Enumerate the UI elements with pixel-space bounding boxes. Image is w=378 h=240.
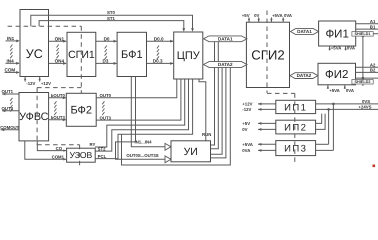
wire IN4 (6, 62, 20, 65)
stub +5VA (ФИ1) (328, 46, 330, 50)
label IN1 (7, 36, 15, 41)
label ON4 (55, 59, 65, 64)
wire -12V (258, 108, 276, 111)
label ST2 (98, 146, 106, 151)
label OUT0 (100, 93, 112, 98)
svg-text:0VS: 0VS (362, 99, 370, 104)
svg-text:-12V: -12V (26, 81, 35, 86)
wire RY (95, 79, 185, 147)
label D3 (103, 59, 109, 64)
svg-text:RUN: RUN (202, 132, 211, 137)
svg-text:PCL: PCL (98, 154, 107, 159)
wire +5V (ИП2) (258, 122, 276, 125)
label IN1...IN4 (135, 139, 153, 144)
svg-text:bOUT3: bOUT3 (51, 115, 66, 120)
svg-text:COM: COM (5, 68, 16, 73)
junction +24VS (327, 108, 330, 111)
label +5VA (ФИ2) (329, 88, 340, 93)
wire ON4 (49, 62, 67, 65)
stub +5V (СГИ2 top) (248, 17, 250, 22)
label ST1 (107, 16, 115, 21)
stub 0VA (ФИ1) (344, 46, 346, 50)
label +12V (41, 81, 51, 86)
svg-text:DATA1: DATA1 (218, 36, 233, 41)
label 0VA (ФИ2) (346, 88, 354, 93)
label A2 (370, 63, 376, 68)
wire OUT0S...OUT3S (116, 77, 172, 163)
wire ИП2 out a (316, 114, 322, 124)
svg-text:IN1...IN4: IN1...IN4 (135, 139, 153, 144)
block ИП3 (276, 141, 316, 156)
wire CO (37, 141, 66, 152)
svg-text:B1: B1 (370, 24, 376, 29)
svg-text:-12V: -12V (242, 107, 251, 112)
wire bOUT0 (49, 96, 67, 99)
svg-text:БФ1: БФ1 (121, 49, 143, 61)
label COM (5, 68, 16, 73)
red speck artifact (373, 165, 376, 168)
wire A1 (356, 23, 378, 25)
label +5V (СГИ2 top) (242, 13, 250, 18)
wire 0VA (ИП3) (258, 149, 276, 152)
label OUT4 (2, 106, 14, 111)
stub 0VA (СГИ2 top) (282, 17, 284, 22)
svg-text:DATA1: DATA1 (297, 29, 312, 34)
wire 0V (ИП2) (258, 128, 276, 131)
svg-text:IN1: IN1 (7, 36, 15, 41)
label 0V (ИП2) (242, 127, 247, 132)
svg-text:D0.3: D0.3 (153, 59, 163, 64)
svg-text:СГИ2: СГИ2 (251, 48, 284, 63)
dashed boundary v2 (через УФВС) (36, 88, 38, 145)
svg-text:D0.0: D0.0 (154, 36, 164, 41)
wire +5VA (ИП3) (258, 143, 276, 146)
block ИП1 (276, 100, 316, 113)
svg-text:ИП3: ИП3 (284, 143, 307, 154)
wire COMOUT (1, 128, 20, 131)
svg-text:ST1: ST1 (107, 16, 115, 21)
wire bottom bus (122, 68, 231, 166)
svg-text:+12V: +12V (41, 81, 51, 86)
svg-text:D0: D0 (104, 36, 110, 41)
wire УИ-DATA2 a (211, 68, 223, 155)
wire ИП3 out b (316, 149, 334, 151)
svg-text:OUT0S...OUT3S: OUT0S...OUT3S (126, 153, 158, 158)
wire +24VS (316, 108, 378, 110)
svg-text:SHIELD1: SHIELD1 (354, 32, 370, 36)
label 0VA (ИП3) (242, 148, 250, 153)
bus arrow DATA2 (СГИ2-ФИ2) (290, 73, 318, 79)
wire B1 (356, 28, 378, 30)
svg-text:0VA: 0VA (346, 88, 354, 93)
wire SHIELD1 (356, 33, 378, 35)
label -12V (26, 81, 35, 86)
wire PCL (95, 79, 192, 159)
block БФ2 (66, 93, 96, 126)
wire ИП3 out a (316, 143, 329, 145)
label PCL (98, 154, 107, 159)
label D0 (104, 36, 110, 41)
wire SHIELD2 (356, 77, 378, 79)
svg-text:ЦПУ: ЦПУ (177, 50, 201, 62)
hatch ON1..ON4 (57, 45, 59, 59)
label -12V (242, 107, 251, 112)
block УЗОВ (67, 148, 96, 162)
svg-text:ON1: ON1 (55, 36, 65, 41)
label RY (90, 142, 96, 147)
wire D0 (96, 40, 117, 43)
dashed boundary v3 (через УЗОВ) (79, 145, 81, 168)
wire ST0 (31, 15, 194, 31)
label COM1 (52, 155, 65, 160)
dashed boundary h4 (267, 92, 295, 94)
label +5VA (СГИ2 top) (272, 13, 283, 18)
label D0.3 (153, 59, 163, 64)
svg-text:0V: 0V (242, 127, 247, 132)
svg-text:DATA2: DATA2 (218, 62, 233, 67)
svg-text:0VA: 0VA (242, 148, 250, 153)
dashed boundary v4 (через СГИ2) (266, 11, 268, 93)
svg-text:A1: A1 (370, 19, 376, 24)
wire RUN (199, 79, 206, 141)
svg-text:0V: 0V (254, 13, 259, 18)
svg-text:+5VA: +5VA (329, 88, 340, 93)
label 0VS (362, 99, 370, 104)
svg-text:+5VA: +5VA (242, 142, 253, 147)
wire УИ-DATA2 b (211, 68, 226, 158)
wire IN1...IN4 (131, 77, 171, 151)
hatch bOUT0..bOUT3 (54, 101, 56, 115)
junction 0VS (332, 103, 335, 106)
label bOUT3 (51, 115, 66, 120)
label +5VA (ИП3) (242, 142, 253, 147)
wire B2 (356, 71, 378, 73)
dashed boundary h3 (37, 144, 80, 146)
svg-text:БФ2: БФ2 (70, 105, 92, 117)
wire 0VS (316, 103, 378, 105)
wire COM (5, 71, 20, 74)
label COMOUT (0, 125, 19, 130)
svg-text:+12V: +12V (242, 102, 252, 107)
stub +12V (39, 77, 41, 82)
wire ON1 (49, 40, 67, 43)
svg-text:SHIELD2: SHIELD2 (354, 80, 370, 84)
svg-text:bOUT0: bOUT0 (51, 93, 66, 98)
wire OUT1 (2, 93, 19, 96)
svg-text:ФИ1: ФИ1 (325, 29, 348, 41)
label ON1 (55, 36, 65, 41)
label IN4 (7, 58, 15, 63)
svg-text:ON4: ON4 (55, 59, 65, 64)
block ФИ2 (318, 63, 356, 85)
wire shield bus (362, 36, 364, 86)
wire ST1 (39, 21, 185, 32)
hatch D0.0..D0.3 (157, 46, 159, 60)
label 0VA (СГИ2 top) (284, 13, 292, 18)
svg-text:COMOUT: COMOUT (0, 125, 19, 130)
label B1 (370, 24, 376, 29)
svg-text:OUT1: OUT1 (2, 89, 14, 94)
dashed boundary v1 (через СГИ1) (80, 26, 82, 93)
svg-text:ИП2: ИП2 (284, 122, 307, 133)
dashed boundary top (8, 25, 82, 27)
label B2 (370, 68, 376, 73)
svg-text:D3: D3 (103, 59, 109, 64)
svg-text:УС: УС (26, 47, 43, 61)
label A1 (370, 19, 376, 24)
label SHIELD1 (352, 32, 373, 37)
svg-text:УИ: УИ (184, 146, 198, 158)
label SHIELD2 (352, 80, 373, 85)
label +5VA (ФИ1) (331, 46, 342, 51)
wire OUT3 bus (96, 79, 181, 120)
svg-text:CO: CO (56, 146, 63, 151)
label 0V (СГИ2 top) (254, 13, 259, 18)
svg-text:COM1: COM1 (52, 155, 65, 160)
svg-text:ФИ2: ФИ2 (325, 69, 348, 81)
bus arrow DATA1 (СГИ2-ФИ1) (291, 29, 319, 35)
label CO (56, 146, 63, 151)
wire OUT4 (2, 109, 19, 112)
bus arrow DATA2 (ЦПУ-СГИ2) (204, 62, 248, 68)
block ИП2 (276, 120, 316, 134)
wire OUT0 bus (96, 79, 177, 98)
hatch OUT0..OUT3 (102, 101, 104, 115)
junction shield1 (362, 35, 365, 38)
wire D3 (96, 62, 117, 65)
block УС (20, 10, 49, 77)
svg-text:+5VA: +5VA (272, 13, 283, 18)
label 0VA (ФИ1) (347, 46, 355, 51)
label +12V (242, 102, 252, 107)
label D0.0 (154, 36, 164, 41)
stub -12V (24, 77, 26, 82)
label RUN (202, 132, 211, 137)
svg-text:ST2: ST2 (98, 146, 106, 151)
label OUT1 (2, 89, 14, 94)
wire 0VS drop (332, 104, 334, 150)
stub +5VA (ФИ2) (327, 85, 329, 89)
label OUT0S...OUT3S (126, 153, 158, 158)
stub 0VA (ФИ2) (344, 85, 346, 89)
wire УИ-DATA1 a (211, 42, 215, 145)
svg-text:RY: RY (90, 142, 96, 147)
block ЦПУ (174, 32, 203, 79)
stub +5VA (СГИ2 top) (270, 17, 272, 22)
label OUT3 (100, 115, 112, 120)
svg-text:OUT4: OUT4 (2, 106, 14, 111)
block СГИ2 (246, 22, 289, 87)
svg-text:ИП1: ИП1 (284, 102, 307, 113)
wire D0.3 (147, 62, 174, 65)
block УФВС (19, 93, 49, 141)
svg-text:+24VS: +24VS (359, 105, 372, 110)
dashed boundary h2 (37, 87, 81, 89)
wire +24VS drop (328, 109, 330, 144)
svg-text:OUT0: OUT0 (100, 93, 112, 98)
label +5V (ИП2) (242, 121, 250, 126)
wire УИ-DATA1 b (211, 42, 219, 149)
label ST0 (107, 10, 115, 15)
junction shield2 (362, 77, 365, 80)
wire IN1 (6, 39, 20, 42)
wire COM1 (25, 141, 66, 161)
stub 0V (СГИ2 top) (258, 17, 260, 22)
block СГИ1 (67, 32, 96, 76)
svg-text:УЗОВ: УЗОВ (70, 150, 93, 160)
wire D0.0 (147, 40, 174, 43)
hatch D0..D3 (105, 46, 107, 60)
bus arrow DATA1 (ЦПУ-СГИ2) (204, 36, 248, 42)
wire +12V (258, 102, 276, 105)
label bOUT0 (51, 93, 66, 98)
wire ST2 (95, 79, 188, 151)
dashed boundary v5 (через ИП1-ИП3) (294, 93, 296, 165)
block БФ1 (117, 32, 146, 76)
svg-text:0VA: 0VA (284, 13, 292, 18)
block УИ (171, 141, 211, 162)
svg-text:ST0: ST0 (107, 10, 115, 15)
svg-text:DATA2: DATA2 (297, 73, 312, 78)
label +24VS (359, 105, 372, 110)
hatch IN1..IN4 (10, 45, 12, 59)
block ФИ1 (319, 21, 356, 46)
svg-text:УФВС: УФВС (19, 111, 49, 123)
wire ИП2 out b (316, 114, 326, 130)
wire bOUT3 (49, 118, 67, 121)
hatch OUT1..OUT4 (10, 98, 12, 112)
svg-text:IN4: IN4 (7, 58, 15, 63)
svg-text:+5V: +5V (242, 121, 250, 126)
wire A2 (356, 66, 378, 68)
svg-text:B2: B2 (370, 68, 376, 73)
svg-text:OUT3: OUT3 (100, 115, 112, 120)
svg-text:+5V: +5V (242, 13, 250, 18)
